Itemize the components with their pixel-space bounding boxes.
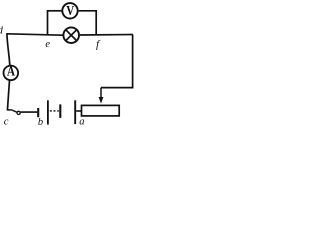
- svg-text:V: V: [66, 3, 74, 18]
- wire left vertical lower (ammeter to switch): [7, 80, 9, 110]
- svg-text:e: e: [45, 39, 50, 50]
- svg-text:f: f: [96, 39, 101, 51]
- battery cell 2 long plate: [74, 100, 76, 124]
- battery cell 2 short plate: [59, 104, 61, 118]
- battery cell 1 short plate: [37, 108, 39, 117]
- switch S1 (open) with pivot circle: [7, 110, 37, 115]
- wire battery to rheostat: [76, 110, 81, 112]
- wire left vertical upper (d corner to ammeter): [7, 33, 10, 65]
- rheostat R1 body: [82, 105, 120, 116]
- battery cell 1 long plate: [47, 100, 49, 124]
- svg-text:A: A: [7, 63, 16, 78]
- ammeter A1: [4, 63, 19, 80]
- wire top-right horizontal (V branch right): [79, 10, 97, 12]
- wire main horizontal right (lamp to right edge): [80, 34, 133, 37]
- wire top-left horizontal (V branch left): [48, 10, 62, 12]
- svg-text:b: b: [38, 117, 43, 128]
- wire left riser (node e to V branch): [47, 10, 49, 35]
- dashed wire (omitted cells): [50, 110, 59, 112]
- lamp L1 (circle with X): [63, 27, 79, 43]
- wire right riser (node f to V branch): [95, 10, 97, 35]
- rheostat wiper arrow: [99, 88, 104, 104]
- wire arrow branch horizontal: [101, 87, 133, 89]
- svg-text:d: d: [0, 25, 4, 36]
- wire right vertical: [132, 35, 134, 89]
- svg-text:c: c: [4, 117, 9, 128]
- svg-text:a: a: [79, 117, 84, 128]
- voltmeter U1: [62, 3, 77, 19]
- wire main horizontal left (d corner to lamp): [7, 34, 63, 35]
